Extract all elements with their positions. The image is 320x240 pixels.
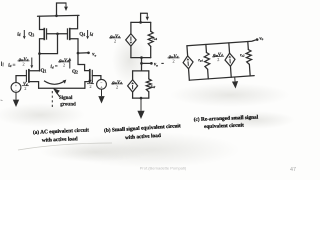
svg-text:2: 2 — [24, 86, 26, 91]
svg-text:Q3: Q3 — [28, 32, 34, 38]
svg-text:vo: vo — [154, 63, 158, 68]
svg-text:Signal: Signal — [59, 96, 73, 101]
svg-text:ground: ground — [60, 102, 76, 107]
svg-text:id: id — [17, 32, 20, 37]
svg-text:ro4: ro4 — [153, 36, 158, 42]
svg-text:id =: id = — [8, 64, 15, 69]
svg-text:Prof.(Bernadette Pompati): Prof.(Bernadette Pompati) — [140, 166, 187, 171]
svg-text:id: id — [90, 32, 93, 37]
svg-text:2: 2 — [89, 84, 91, 89]
svg-text:Q1: Q1 — [41, 68, 47, 74]
svg-text:vo: vo — [92, 53, 96, 58]
svg-text:ro2: ro2 — [151, 84, 156, 90]
svg-text:Q2: Q2 — [72, 69, 78, 75]
svg-text:Q4: Q4 — [79, 32, 85, 38]
svg-text:=: = — [161, 61, 164, 66]
svg-text:47: 47 — [290, 167, 296, 173]
svg-text:vo: vo — [259, 36, 263, 41]
svg-text:id =: id = — [51, 65, 58, 70]
